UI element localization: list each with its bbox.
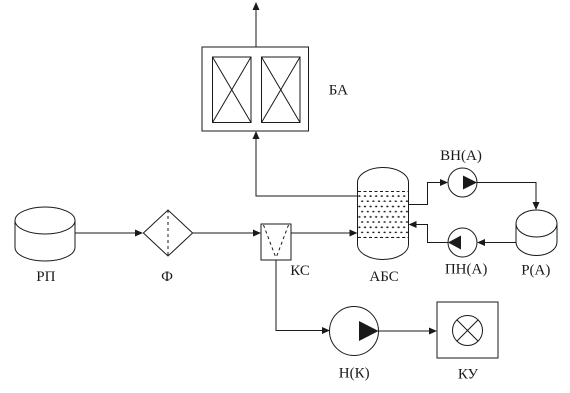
svg-text:Н(К): Н(К) [339,365,370,381]
column АБС [358,168,409,260]
svg-text:АБС: АБС [369,269,398,285]
wire АБС to БА [253,131,358,196]
БА inner cell 2 [262,57,301,123]
apparatus КУ [437,302,498,358]
wire КС to Н(К) [276,260,330,334]
svg-text:КС: КС [290,263,310,279]
wire КС to АБС [291,230,358,237]
apparatus БА outer box [202,47,309,131]
wire ВН(А) to Р(А) [477,183,540,211]
wire top output arrow [253,2,260,47]
wire ПН(А) to АБС [409,221,449,243]
svg-text:ВН(А): ВН(А) [440,148,482,164]
svg-text:Р(А): Р(А) [521,262,550,278]
svg-text:ПН(А): ПН(А) [445,262,488,278]
tank РП [15,207,75,261]
apparatus КС [261,224,291,260]
БА inner cell 1 [213,57,252,123]
wire Н(К) to КУ [379,328,438,335]
svg-text:РП: РП [36,269,55,285]
wire РП to Ф [75,230,143,237]
wire АБС to ВН(А) [409,179,449,205]
svg-text:Ф: Ф [161,269,173,285]
pump ВН(А) [448,168,477,197]
svg-text:КУ: КУ [458,367,479,383]
pump Н(К) [330,307,379,356]
tank Р(А) [516,210,557,256]
pump ПН(А) [448,228,477,257]
wire Р(А) to ПН(А) [477,239,516,246]
filter Ф [143,210,192,256]
wire Ф to КС [193,230,261,237]
svg-text:БА: БА [329,82,348,98]
